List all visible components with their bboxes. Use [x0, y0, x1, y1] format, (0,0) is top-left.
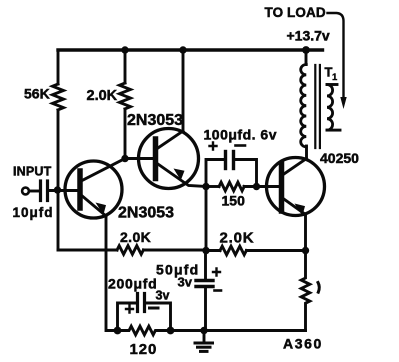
svg-text:TO LOAD: TO LOAD: [265, 5, 326, 20]
svg-text:1: 1: [332, 72, 338, 83]
input terminal: [22, 188, 29, 195]
resistor 1 ohm vertical: [301, 251, 310, 331]
wire bottom rail: [171, 329, 306, 332]
node 150 / cap / Q3 base: [253, 183, 260, 190]
wire feedback row y=250: [58, 249, 117, 252]
wire zigzag to node B: [144, 249, 207, 252]
wire 50ufd to ground rail: [204, 288, 207, 331]
resistor 56K: [53, 84, 64, 110]
capacitor 200ufd minus sign: [150, 307, 159, 310]
capacitor 100ufd: [224, 152, 227, 169]
transformer T1 primary lead: [305, 50, 308, 65]
capacitor 50ufd minus sign: [215, 289, 222, 292]
wire Q1 emitter down: [106, 216, 116, 331]
node Q2 emitter: [202, 183, 209, 190]
transformer T1 core: [314, 65, 316, 148]
svg-text:A360: A360: [283, 336, 323, 352]
svg-text:100μfd. 6v: 100μfd. 6v: [204, 127, 278, 143]
wire 2.0K to node C: [247, 249, 306, 252]
svg-text:40250: 40250: [320, 150, 359, 166]
wire Q2 base: [125, 157, 153, 160]
wire cap to Q1 base: [49, 189, 78, 192]
svg-text:3v: 3v: [156, 289, 170, 303]
wire 56K branch upper: [57, 50, 60, 84]
label 1: [318, 283, 319, 293]
capacitor 50ufd plus sign: [213, 269, 220, 276]
ground: [203, 331, 206, 343]
resistor 2.0K lower-right: [220, 246, 246, 255]
wire node A to node B: [205, 187, 208, 251]
wire cap branch right: [235, 160, 257, 187]
capacitor 100ufd minus sign: [236, 144, 246, 147]
wire 2.0K upper branch: [124, 50, 127, 83]
wire cap branch left: [206, 160, 224, 187]
capacitor 100ufd plus sign: [210, 143, 217, 150]
wire 56K branch lower to base node: [57, 110, 60, 250]
wire 150 branch left: [206, 185, 219, 188]
wire 150 to Q3 base: [244, 185, 279, 188]
wire input to cap: [29, 190, 39, 193]
resistor 2.0K lower-left: [117, 246, 143, 255]
svg-text:120: 120: [130, 341, 158, 358]
svg-text:2N3053: 2N3053: [127, 112, 183, 129]
capacitor 200ufd: [136, 294, 139, 312]
resistor 2.0K upper: [120, 83, 131, 109]
transformer T1 primary winding: [301, 65, 307, 147]
capacitor 10ufd: [39, 181, 42, 201]
transistor Q1 2N3053: [65, 161, 122, 218]
wire top supply rail: [58, 48, 323, 51]
svg-text:2N3053: 2N3053: [118, 205, 174, 222]
node top rail / Q2 collector junction: [179, 46, 186, 53]
capacitor 200ufd plus sign: [126, 306, 133, 313]
node +13.7v transformer junction: [302, 46, 310, 54]
capacitor 50ufd: [196, 279, 213, 282]
transformer T1 secondary winding: [327, 85, 333, 131]
svg-text:INPUT: INPUT: [13, 165, 52, 179]
node Q1 base / 56K: [54, 186, 61, 193]
node Q1 collector / Q2 base: [121, 155, 128, 162]
wire 2.0K lower to Q1 collector node: [124, 109, 127, 159]
resistor 120: [119, 326, 172, 335]
svg-text:150: 150: [222, 193, 246, 209]
capacitor 200ufd loop right: [147, 303, 171, 331]
node 120 right: [167, 327, 175, 335]
svg-text:+13.7v: +13.7v: [287, 28, 330, 44]
svg-text:56K: 56K: [24, 86, 50, 102]
node B: [202, 247, 209, 254]
svg-text:2.0K: 2.0K: [220, 230, 255, 247]
capacitor 200ufd loop left: [118, 303, 136, 331]
resistor 150: [219, 182, 244, 191]
node C Q3 emitter junction: [302, 247, 309, 254]
node ground tap: [200, 327, 207, 334]
svg-text:200μfd: 200μfd: [108, 276, 157, 292]
wire node B down to 50ufd: [204, 251, 207, 280]
node 120 left: [114, 327, 122, 335]
wire node B to 2.0K right: [206, 249, 220, 252]
transistor Q3 40250: [267, 158, 325, 216]
svg-text:3v: 3v: [178, 275, 193, 290]
transformer T1 secondary leads: [327, 83, 337, 86]
transistor Q2 2N3053: [139, 129, 199, 189]
svg-text:2.0K: 2.0K: [87, 88, 118, 104]
svg-text:10μfd: 10μfd: [13, 205, 54, 220]
node top rail / 2.0K junction: [121, 46, 128, 53]
svg-text:2.0K: 2.0K: [120, 229, 151, 245]
wire to-load pointer with arrow: [328, 13, 344, 99]
